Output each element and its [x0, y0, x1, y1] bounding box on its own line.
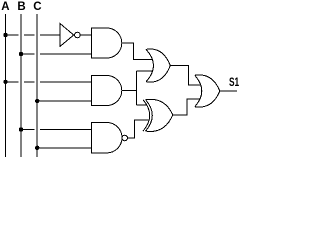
NOT gate U1 bubble [75, 32, 81, 38]
XOR gate U6 input arc [143, 100, 150, 131]
junction dot A / U3 wire [3, 80, 7, 84]
NAND gate U4 bubble [122, 135, 128, 141]
junction dot C / U3 wire [35, 99, 39, 103]
wire B to NAND U4 (gap at C crossing) [21, 129, 35, 131]
svg-text:C: C [33, 1, 41, 13]
input rail B [20, 14, 22, 157]
XOR gate U6 body [146, 99, 173, 131]
wire junction vertical [136, 71, 138, 105]
wire U3 output to junction [122, 90, 137, 92]
AND gate U2 [91, 28, 122, 58]
wire U7 output to S1 [220, 90, 237, 92]
svg-text:B: B [17, 1, 25, 13]
wire C to AND U3 [37, 100, 91, 102]
OR gate U7 (output) [195, 75, 220, 107]
wire C to NAND U4 [37, 147, 91, 149]
wire U4 output up to XOR U6 lower input [128, 120, 150, 138]
svg-text:S1: S1 [229, 77, 240, 89]
wire junction down to XOR U6 upper input [137, 104, 147, 106]
wire U6 output to final OR U7 [173, 99, 200, 115]
junction dot A / NOT wire [3, 33, 7, 37]
input rail A [5, 14, 7, 157]
AND gate U3 [91, 76, 122, 106]
junction dot B / U2 wire [19, 52, 23, 56]
wire A to AND U3 (gaps at B,C crossings) [6, 81, 19, 83]
wire U2 output [122, 43, 153, 60]
wire B to AND U2 (gap at C crossing) [21, 53, 35, 55]
wire U5 output to final OR U7 [170, 66, 201, 85]
OR gate U5 [146, 49, 170, 82]
NOT gate U1 triangle [60, 24, 74, 47]
input rail C [36, 14, 38, 157]
wire A to NOT gate (gaps at B,C crossings) [6, 34, 19, 36]
svg-text:A: A [1, 1, 9, 13]
junction dot C / U4 wire [35, 146, 39, 150]
wire NOT output to AND U2 [80, 34, 91, 36]
wire junction up to OR U5 lower input [137, 70, 153, 72]
junction dot B / U4 wire [19, 127, 23, 131]
NAND gate U4 body [91, 123, 122, 153]
